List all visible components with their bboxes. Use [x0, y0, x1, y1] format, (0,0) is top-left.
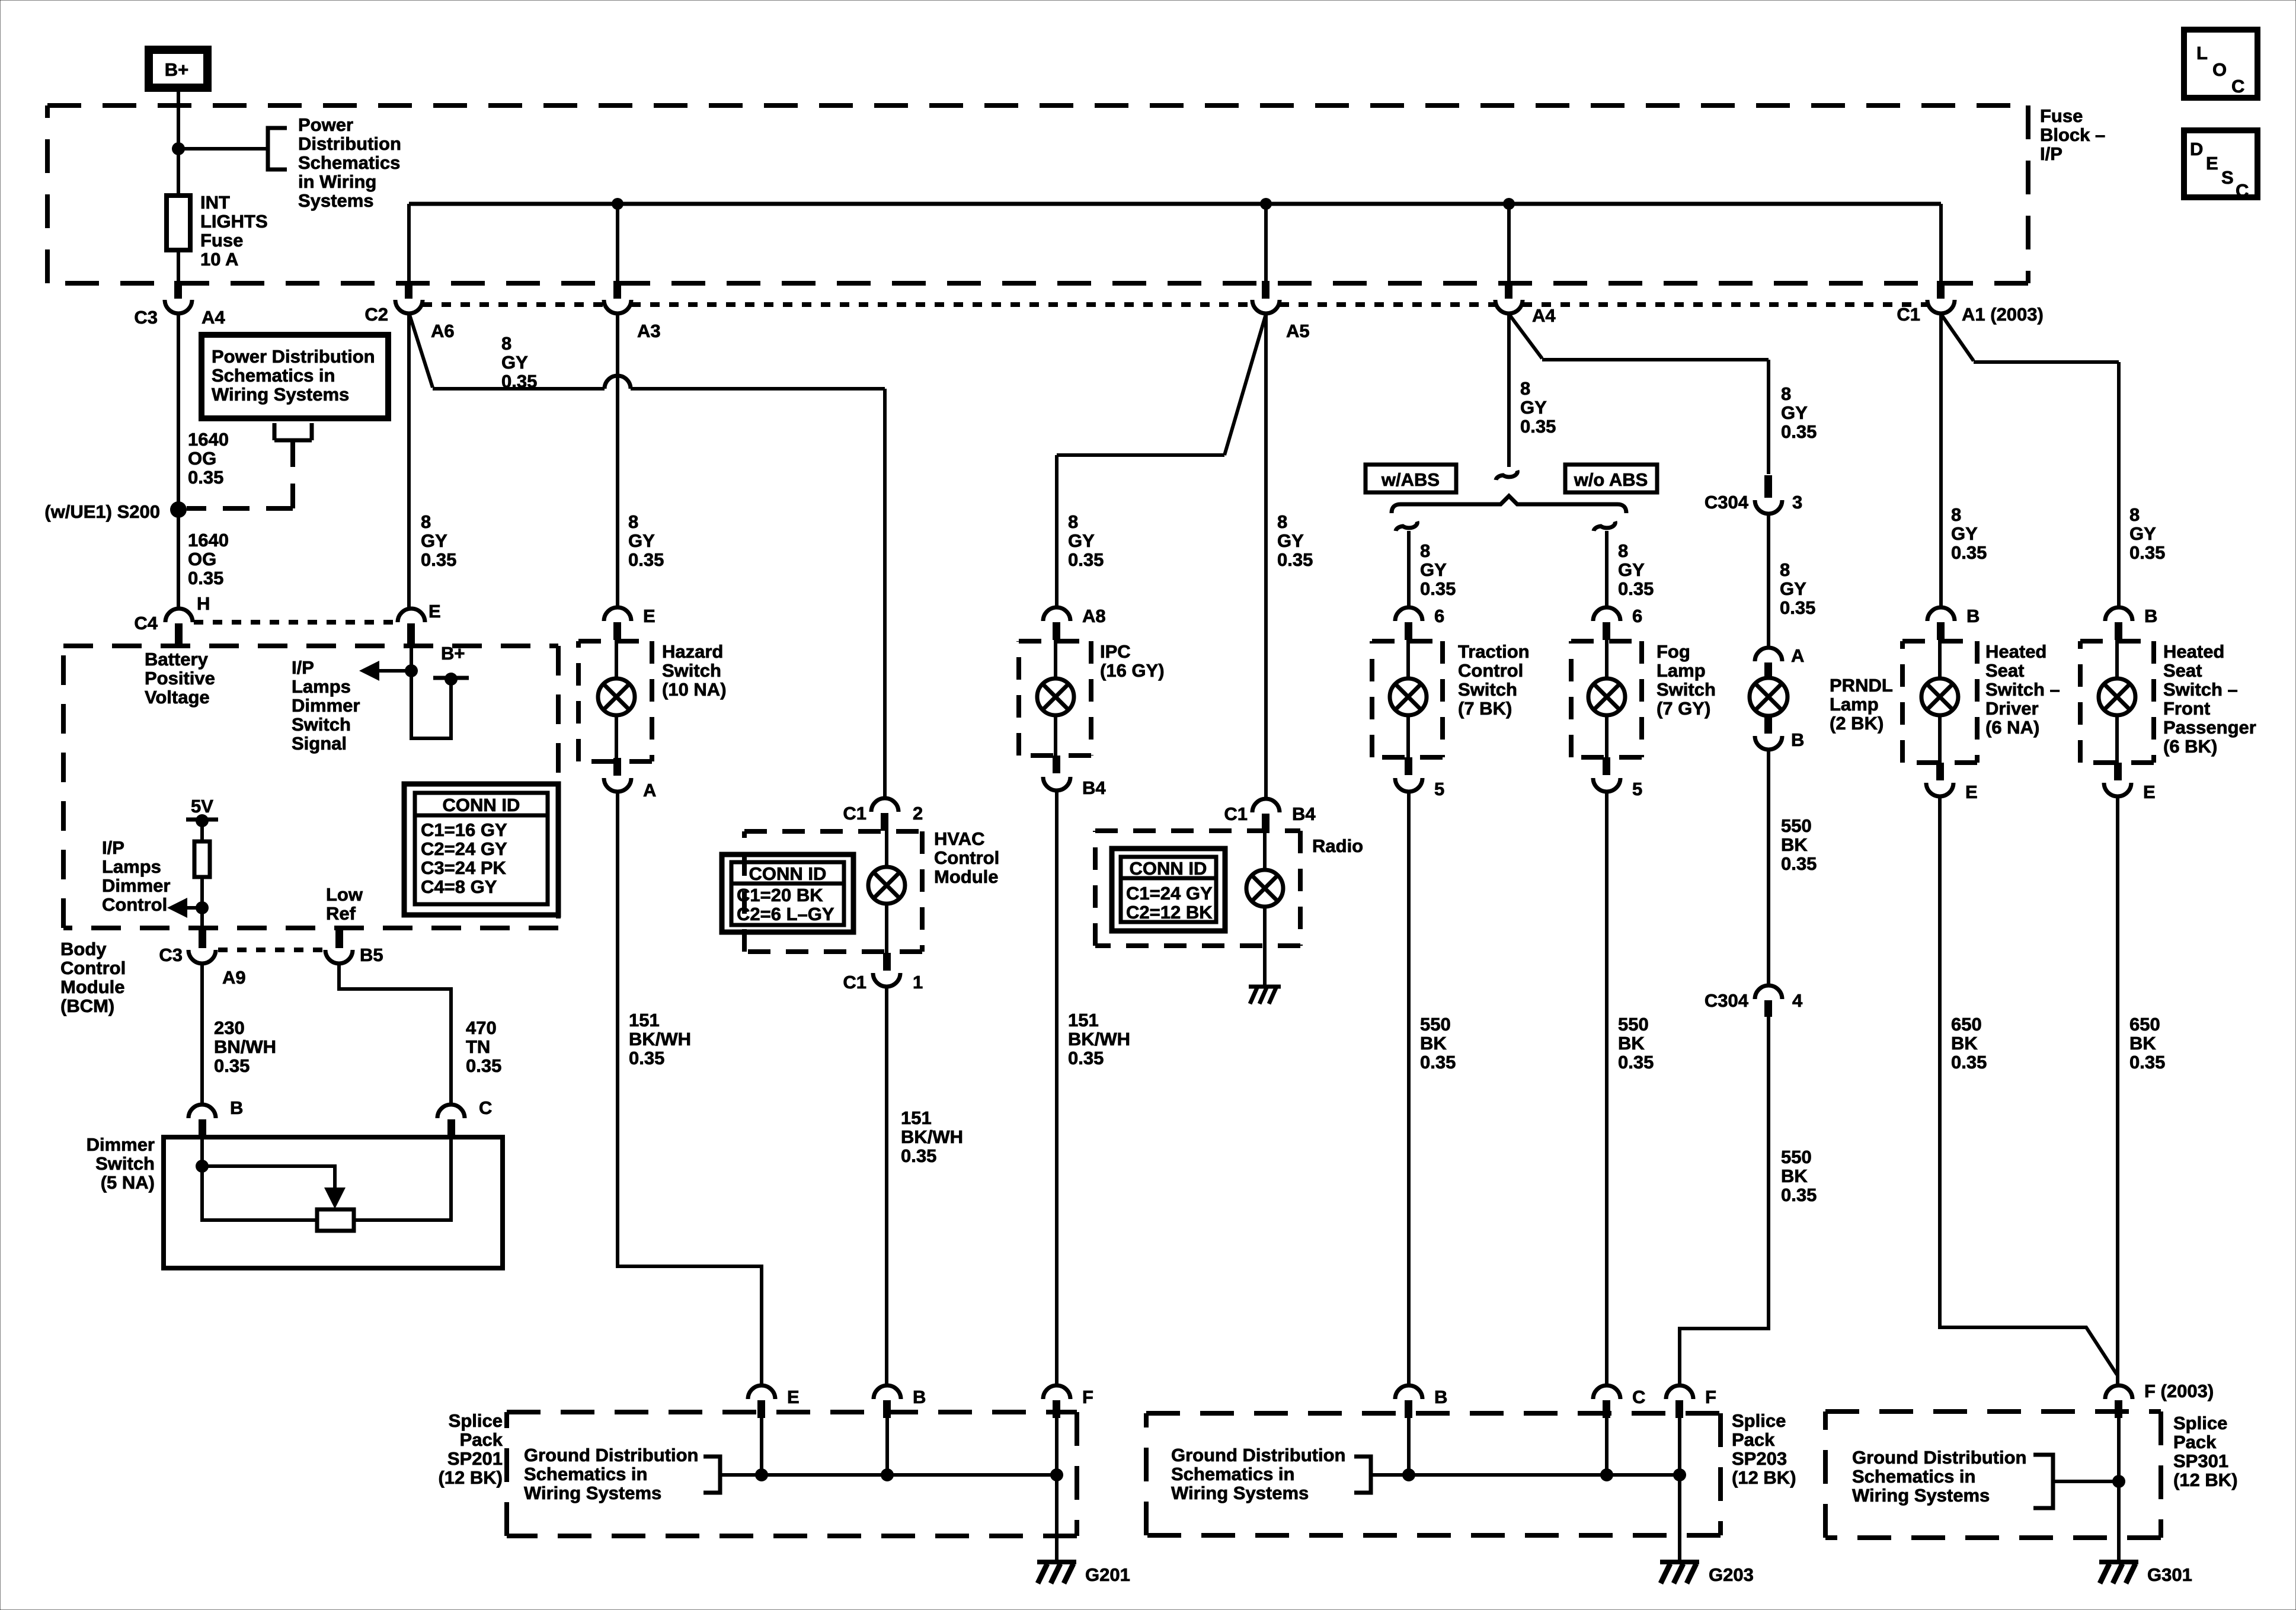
svg-text:GY: GY — [1781, 402, 1808, 423]
connector 6 traction — [1395, 607, 1422, 640]
junction node at A5 drop — [1260, 198, 1272, 210]
svg-text:B: B — [1791, 729, 1804, 750]
svg-text:C1=20 BK: C1=20 BK — [737, 885, 823, 905]
CONN ID box radio — [1112, 849, 1225, 931]
svg-text:(6 NA): (6 NA) — [1985, 717, 2039, 738]
label 650 BK 0.35 driver — [1951, 1014, 1987, 1073]
svg-text:B: B — [2144, 606, 2157, 626]
svg-text:C304: C304 — [1705, 492, 1749, 513]
label Power Distribution Schematics in Wiring Systems — [298, 114, 401, 211]
ground G203 — [1660, 1562, 1699, 1583]
squiggle traction branch top — [1396, 521, 1417, 531]
wire resistor to A9 — [200, 877, 204, 929]
svg-text:(12 BK): (12 BK) — [1732, 1467, 1796, 1488]
svg-text:H: H — [197, 593, 210, 614]
svg-text:3: 3 — [1792, 492, 1802, 513]
5V terminal — [186, 796, 218, 827]
junction nodes SP201 — [755, 1468, 1063, 1481]
svg-text:Low: Low — [326, 884, 363, 905]
connector pin A4 right — [1495, 281, 1523, 313]
label IPC (16 GY) — [1100, 641, 1165, 681]
label 8 GY 0.35 C2 column — [421, 511, 456, 570]
w/o ABS box — [1565, 465, 1657, 492]
svg-text:GY: GY — [501, 352, 528, 373]
ground ref bracket SP203 — [1354, 1457, 1371, 1493]
svg-text:6: 6 — [1434, 606, 1444, 626]
svg-text:A4: A4 — [1532, 305, 1556, 326]
svg-text:Switch: Switch — [1657, 679, 1716, 700]
svg-text:BK: BK — [1951, 1033, 1978, 1054]
connector B5 — [325, 929, 353, 964]
svg-text:Wiring Systems: Wiring Systems — [1171, 1483, 1309, 1503]
svg-text:Voltage: Voltage — [145, 687, 210, 708]
label 8 GY 0.35 A4 column — [1520, 378, 1556, 437]
power distribution reference bracket — [268, 128, 287, 169]
label 650 BK 0.35 passenger — [2129, 1014, 2165, 1073]
svg-text:L: L — [2196, 43, 2208, 63]
splice wire SP301 — [2117, 1418, 2121, 1561]
label INT LIGHTS Fuse 10 A — [200, 192, 268, 270]
label I/P Lamps Dimmer Switch Signal — [292, 657, 360, 754]
junction node SP301 — [2112, 1475, 2125, 1488]
w/ABS box — [1366, 465, 1456, 492]
hazard internal wires — [615, 640, 618, 758]
svg-text:8: 8 — [1618, 540, 1628, 561]
svg-text:Lamp: Lamp — [1830, 694, 1879, 715]
svg-text:S: S — [2221, 167, 2234, 188]
wire C1 branch to passenger — [1941, 314, 2119, 607]
dimmer internal wire B branch — [202, 1137, 317, 1220]
svg-text:SP203: SP203 — [1732, 1448, 1787, 1469]
svg-text:B5: B5 — [360, 945, 383, 965]
svg-text:GY: GY — [2129, 523, 2156, 544]
svg-text:A5: A5 — [1286, 321, 1310, 341]
DESC box — [2184, 130, 2257, 201]
connector C1 pin 2 HVAC — [871, 798, 898, 831]
connector 5 traction — [1395, 757, 1422, 792]
heated seat switch passenger dashed box — [2080, 641, 2154, 763]
svg-text:8: 8 — [1068, 511, 1078, 532]
label Low Ref — [326, 884, 363, 924]
svg-text:Switch –: Switch – — [1985, 679, 2060, 700]
svg-text:550: 550 — [1618, 1014, 1649, 1035]
IPC internal wires — [1054, 640, 1057, 756]
wire bus drop to A5 — [1264, 204, 1268, 281]
svg-text:0.35: 0.35 — [188, 568, 223, 588]
svg-text:4: 4 — [1792, 990, 1803, 1011]
svg-text:Body: Body — [60, 939, 107, 959]
svg-text:A6: A6 — [431, 321, 455, 341]
svg-text:PRNDL: PRNDL — [1830, 675, 1893, 696]
svg-text:C4: C4 — [134, 613, 158, 633]
svg-text:Passenger: Passenger — [2163, 717, 2256, 738]
svg-text:(10 NA): (10 NA) — [662, 679, 727, 700]
wire E to B+ terminal inside BCM — [411, 646, 451, 738]
wire IPC to splice F — [1055, 790, 1059, 1385]
svg-text:HVAC: HVAC — [934, 828, 985, 849]
label 1640 OG 0.35 lower — [188, 530, 229, 588]
svg-text:C1=16 GY: C1=16 GY — [421, 820, 507, 840]
svg-text:B: B — [230, 1097, 243, 1118]
svg-text:C3: C3 — [159, 945, 183, 965]
svg-text:C304: C304 — [1705, 990, 1749, 1011]
label Traction Control Switch (7 BK) — [1458, 641, 1530, 719]
fuse block connector face dotted line — [423, 302, 1927, 307]
fuse INT LIGHTS 10 A — [167, 196, 190, 250]
junction node dimmer wiper — [196, 1160, 209, 1173]
label 550 BK 0.35 upper PRNDL — [1781, 815, 1817, 874]
power distribution reference box 2 — [202, 335, 388, 418]
svg-text:(2 BK): (2 BK) — [1830, 713, 1884, 734]
connector E hazard — [604, 607, 631, 640]
svg-text:Module: Module — [60, 977, 125, 997]
svg-text:C4=8 GY: C4=8 GY — [421, 876, 497, 897]
svg-text:F: F — [1082, 1387, 1093, 1407]
wire fog branch — [1605, 531, 1609, 607]
svg-text:A3: A3 — [637, 321, 661, 341]
svg-text:Schematics in: Schematics in — [1852, 1466, 1975, 1487]
label Dimmer Switch (5 NA) — [87, 1134, 155, 1193]
svg-text:Wiring Systems: Wiring Systems — [1852, 1485, 1990, 1506]
svg-text:Switch: Switch — [95, 1153, 155, 1174]
lamp PRNDL — [1750, 678, 1787, 716]
junction node on B+ feed — [172, 142, 185, 155]
splice pack SP201 dashed box — [507, 1412, 1077, 1536]
connector E heated passenger — [2104, 763, 2131, 796]
wire C304 4 to splice F — [1680, 1017, 1769, 1385]
label Heated Seat Switch - Front Passenger (6 BK) — [2163, 641, 2256, 757]
connector C2 pin A6 — [395, 281, 423, 313]
svg-text:0.35: 0.35 — [1618, 578, 1654, 599]
svg-text:BK: BK — [1781, 1166, 1808, 1186]
svg-text:Ground Distribution: Ground Distribution — [1852, 1447, 2026, 1468]
BCM dashed box — [63, 646, 558, 928]
label 230 BN/WH 0.35 — [214, 1017, 276, 1076]
junction node at A3 drop — [612, 198, 623, 210]
wire A4 down to ABS split — [1507, 313, 1511, 467]
svg-text:TN: TN — [466, 1036, 490, 1057]
svg-text:GY: GY — [421, 530, 447, 551]
svg-text:Schematics in: Schematics in — [524, 1464, 647, 1484]
radio dashed box — [1095, 831, 1300, 946]
label 8 GY 0.35 driver — [1951, 504, 1987, 563]
connector pin A5 — [1252, 281, 1280, 313]
radio internal wires — [1263, 831, 1267, 946]
svg-text:C3: C3 — [134, 307, 158, 328]
svg-text:Pack: Pack — [1732, 1429, 1775, 1450]
wire B5 to dimmer C — [339, 963, 451, 1105]
svg-text:Wiring Systems: Wiring Systems — [524, 1483, 661, 1503]
svg-text:230: 230 — [214, 1017, 245, 1038]
svg-text:Splice: Splice — [449, 1410, 503, 1431]
svg-text:GY: GY — [1618, 559, 1645, 580]
svg-text:C2: C2 — [364, 304, 388, 325]
ground bus SP201 — [720, 1473, 1057, 1477]
svg-text:Fuse: Fuse — [2040, 105, 2083, 126]
svg-text:C1: C1 — [1224, 804, 1248, 824]
svg-text:(BCM): (BCM) — [60, 996, 114, 1016]
svg-text:E: E — [787, 1387, 800, 1407]
label 550 BK 0.35 fog — [1618, 1014, 1654, 1073]
svg-text:0.35: 0.35 — [466, 1055, 501, 1076]
svg-text:A: A — [1791, 645, 1804, 666]
connector C dimmer — [437, 1105, 465, 1137]
svg-text:550: 550 — [1781, 1147, 1812, 1167]
BCM connector row dotted right — [218, 948, 324, 952]
label 8 GY 0.35 traction — [1420, 540, 1456, 599]
svg-text:O: O — [2212, 59, 2227, 80]
svg-text:6: 6 — [1632, 606, 1642, 626]
svg-text:Distribution: Distribution — [298, 133, 401, 154]
svg-text:151: 151 — [901, 1108, 932, 1128]
wire fog to splice C — [1605, 791, 1609, 1385]
label 151 BK/WH 0.35 IPC — [1068, 1010, 1130, 1068]
svg-text:B4: B4 — [1292, 804, 1316, 824]
wire fuse to connector C3/A4 — [177, 250, 180, 281]
svg-text:GY: GY — [628, 530, 655, 551]
label Fuse Block - I/P — [2040, 105, 2105, 164]
svg-text:(12 BK): (12 BK) — [438, 1467, 503, 1488]
connector 6 fog — [1593, 607, 1620, 640]
svg-text:INT: INT — [200, 192, 230, 213]
lamp hazard switch — [598, 678, 635, 715]
svg-text:CONN ID: CONN ID — [1130, 858, 1207, 879]
driver internal wires — [1938, 640, 1942, 763]
battery positive terminal B+ box — [149, 50, 207, 88]
svg-text:8: 8 — [1277, 511, 1287, 532]
svg-text:Front: Front — [2163, 698, 2210, 719]
wire bus drop to C1 — [1939, 204, 1943, 281]
connector C1 pin B4 radio — [1252, 799, 1280, 831]
svg-text:BK/WH: BK/WH — [901, 1126, 963, 1147]
svg-text:Lamps: Lamps — [292, 676, 351, 697]
svg-text:0.35: 0.35 — [2129, 542, 2165, 563]
svg-text:C1=24 GY: C1=24 GY — [1126, 883, 1213, 904]
svg-text:Seat: Seat — [1985, 660, 2024, 681]
svg-text:G203: G203 — [1709, 1564, 1754, 1585]
svg-text:E: E — [2206, 153, 2218, 174]
svg-text:SP301: SP301 — [2173, 1451, 2228, 1471]
svg-text:Battery: Battery — [145, 649, 209, 670]
svg-text:8: 8 — [1780, 559, 1790, 580]
arrow I/P lamps dimmer switch signal — [359, 661, 411, 681]
connector F 2003 splice SP301 — [2105, 1385, 2132, 1418]
svg-text:Heated: Heated — [1985, 641, 2046, 662]
ABS option brace — [1392, 496, 1626, 513]
svg-text:Positive: Positive — [145, 668, 215, 689]
svg-text:Dimmer: Dimmer — [292, 695, 360, 716]
svg-text:0.35: 0.35 — [1068, 549, 1104, 570]
svg-text:Splice: Splice — [2173, 1413, 2227, 1433]
connector A PRNDL — [1755, 648, 1782, 679]
svg-text:0.35: 0.35 — [1781, 1185, 1817, 1205]
svg-text:0.35: 0.35 — [1951, 1052, 1987, 1073]
svg-text:I/P: I/P — [292, 657, 314, 678]
svg-text:B: B — [913, 1387, 926, 1407]
wire driver to F 2003 — [1940, 796, 2117, 1375]
svg-text:8: 8 — [628, 511, 638, 532]
svg-text:5: 5 — [1632, 779, 1642, 799]
svg-text:5V: 5V — [191, 796, 213, 817]
wire bus drop to A4 — [1507, 204, 1511, 281]
wire A6 branch to HVAC — [409, 313, 885, 797]
svg-text:C1: C1 — [843, 972, 866, 993]
svg-text:Pack: Pack — [2173, 1432, 2217, 1452]
label 550 BK 0.35 lower PRNDL — [1781, 1147, 1817, 1205]
wire hop over A3 column — [605, 376, 631, 389]
svg-text:(7 BK): (7 BK) — [1458, 698, 1512, 719]
svg-text:0.35: 0.35 — [501, 371, 537, 392]
svg-text:0.35: 0.35 — [2129, 1052, 2165, 1073]
svg-text:Control: Control — [60, 958, 126, 978]
LOC box — [2184, 30, 2257, 98]
svg-text:Fog: Fog — [1657, 641, 1690, 662]
svg-text:D: D — [2190, 139, 2203, 159]
splice pack SP203 dashed box — [1146, 1413, 1721, 1535]
label 151 BK/WH 0.35 hazard — [629, 1010, 691, 1068]
svg-text:8: 8 — [421, 511, 431, 532]
svg-text:BN/WH: BN/WH — [214, 1036, 276, 1057]
svg-text:E: E — [643, 606, 655, 626]
svg-text:10 A: 10 A — [200, 249, 238, 270]
svg-text:1640: 1640 — [188, 530, 229, 550]
ground G301 — [2099, 1562, 2138, 1583]
junction node dimmer signal — [405, 664, 418, 677]
svg-text:Splice: Splice — [1732, 1410, 1786, 1431]
svg-text:0.35: 0.35 — [628, 549, 664, 570]
label 8 GY 0.35 radio — [1277, 511, 1313, 570]
connector A8 IPC — [1043, 607, 1070, 640]
connector B4 IPC — [1043, 756, 1070, 790]
label I/P Lamps Dimmer Control — [102, 837, 170, 915]
wire branch to power distribution reference — [178, 147, 268, 151]
svg-text:BK: BK — [2129, 1033, 2156, 1054]
wire A5 branch to IPC — [1057, 314, 1266, 607]
svg-text:BK/WH: BK/WH — [1068, 1029, 1130, 1049]
svg-text:Signal: Signal — [292, 733, 347, 754]
connector B heated driver — [1927, 607, 1955, 640]
svg-text:OG: OG — [188, 549, 216, 569]
svg-text:IPC: IPC — [1100, 641, 1131, 662]
svg-text:A: A — [643, 780, 656, 801]
svg-text:(16 GY): (16 GY) — [1100, 660, 1165, 681]
svg-text:CONN ID: CONN ID — [443, 795, 520, 815]
wire A9 to dimmer B — [200, 963, 204, 1105]
svg-text:151: 151 — [1068, 1010, 1099, 1030]
svg-text:w/ABS: w/ABS — [1381, 469, 1440, 490]
connector B PRNDL — [1755, 717, 1782, 750]
svg-text:SP201: SP201 — [447, 1448, 503, 1469]
label PRNDL Lamp (2 BK) — [1830, 675, 1893, 734]
connector E heated driver — [1926, 763, 1953, 796]
wire A5 down to radio — [1264, 313, 1268, 798]
svg-text:650: 650 — [2129, 1014, 2160, 1035]
wire HVAC to splice B — [885, 986, 888, 1385]
svg-text:E: E — [1965, 782, 1978, 802]
label Hazard Switch (10 NA) — [662, 641, 727, 700]
svg-text:Lamp: Lamp — [1657, 660, 1706, 681]
HVAC internal wires — [885, 831, 888, 953]
connector C3 pin A9 — [188, 929, 216, 964]
svg-text:F: F — [1705, 1387, 1716, 1407]
lamp fog — [1588, 678, 1625, 715]
svg-text:Ref: Ref — [326, 903, 356, 924]
connector C304 pin 3 — [1755, 475, 1782, 514]
connector E BCM — [398, 609, 425, 646]
svg-text:(6 BK): (6 BK) — [2163, 736, 2217, 757]
dimmer potentiometer resistor — [317, 1209, 354, 1231]
dimmer wiper arrow — [202, 1166, 346, 1209]
label 8 GY 0.35 IPC — [1068, 511, 1104, 570]
svg-text:(w/UE1) S200: (w/UE1) S200 — [44, 501, 160, 522]
svg-text:Schematics in: Schematics in — [1171, 1464, 1294, 1484]
svg-text:C: C — [1632, 1387, 1645, 1407]
BCM connector row dotted left — [194, 620, 396, 625]
svg-text:Schematics: Schematics — [298, 152, 400, 173]
svg-text:BK: BK — [1420, 1033, 1447, 1054]
svg-text:Ground Distribution: Ground Distribution — [1171, 1445, 1345, 1465]
lamp traction — [1390, 678, 1427, 715]
svg-text:C: C — [2236, 180, 2249, 201]
svg-text:Switch: Switch — [292, 714, 351, 735]
svg-text:Switch: Switch — [1458, 679, 1517, 700]
junction node at A4 drop — [1503, 198, 1515, 210]
wire traction branch — [1407, 531, 1411, 607]
svg-text:Driver: Driver — [1985, 698, 2039, 719]
label Ground Distribution SP301 — [1852, 1447, 2026, 1506]
label HVAC Control Module — [934, 828, 999, 887]
svg-text:G201: G201 — [1085, 1564, 1130, 1585]
dimmer switch box — [164, 1137, 503, 1268]
fog lamp switch dashed box — [1571, 641, 1642, 757]
svg-text:8: 8 — [1781, 383, 1791, 404]
wire B+ to fuse — [177, 88, 180, 196]
svg-text:A4: A4 — [202, 307, 225, 328]
connector C304 pin 4 — [1755, 985, 1782, 1017]
svg-text:0.35: 0.35 — [1781, 853, 1817, 874]
svg-text:C3=24 PK: C3=24 PK — [421, 857, 507, 878]
label Splice Pack SP203 (12 BK) — [1732, 1410, 1796, 1488]
svg-text:E: E — [2143, 782, 2156, 802]
svg-text:E: E — [428, 601, 441, 622]
ground G201 — [1037, 1562, 1076, 1583]
CONN ID box HVAC — [722, 854, 853, 932]
splice pack SP301 dashed box — [1825, 1411, 2161, 1538]
svg-text:470: 470 — [466, 1017, 497, 1038]
connector B splice SP203 — [1395, 1385, 1422, 1418]
svg-text:Control: Control — [102, 894, 167, 915]
lamp heated driver — [1921, 678, 1958, 715]
label Ground Distribution SP201 — [524, 1445, 698, 1503]
svg-text:I/P: I/P — [102, 837, 124, 858]
connector 5 fog — [1593, 757, 1620, 792]
connector C3 pin A4 — [165, 281, 192, 313]
label Splice Pack SP301 (12 BK) — [2173, 1413, 2238, 1490]
svg-text:Block –: Block – — [2040, 124, 2105, 145]
svg-text:Lamps: Lamps — [102, 856, 161, 877]
label 8 GY 0.35 PRNDL — [1780, 559, 1815, 618]
svg-text:151: 151 — [629, 1010, 660, 1030]
svg-text:5: 5 — [1434, 779, 1444, 799]
svg-text:Traction: Traction — [1458, 641, 1530, 662]
heated seat switch driver dashed box — [1902, 641, 1977, 763]
svg-text:GY: GY — [1780, 578, 1806, 599]
svg-text:A1 (2003): A1 (2003) — [1962, 304, 2044, 325]
svg-text:8: 8 — [1951, 504, 1961, 525]
label Power Distribution Schematics in Wiring Systems box2 — [212, 346, 375, 405]
lamp HVAC — [868, 867, 905, 904]
CONN ID box BCM — [404, 784, 558, 915]
